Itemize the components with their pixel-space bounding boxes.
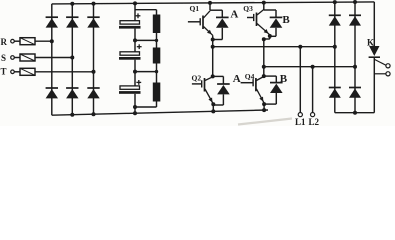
rectifier diode bottom leg 1 [46,88,58,98]
terminal T [1,66,21,76]
resistor R2 bleeder [153,48,161,64]
transistor Q1 [188,11,213,36]
node DC+ cap string [133,1,137,5]
resistor R1 bleeder [153,15,161,34]
contact blade K [375,60,387,66]
contact terminal upper [386,64,390,68]
node Q3 collector rail [262,1,266,5]
node clamp leg2 top [353,0,357,4]
node L2 tap on phase B [311,65,315,69]
label K [367,37,374,47]
scan smudge artifact [238,119,292,125]
svg-text:B: B [280,73,288,85]
node T-leg junction [92,70,96,74]
svg-text:Q2: Q2 [192,73,202,82]
wire clamp bridge bottom rail [335,112,375,114]
wire Q3 emitter jog [262,36,270,41]
node clamp leg1 top [333,0,337,4]
wire Q2 emitter to rail [211,104,215,113]
node Q4 collector [262,74,266,78]
wire clamp bridge leg 1 [334,2,336,113]
wire phase A line [213,46,335,48]
node phase A clamp junction [333,45,337,49]
rectifier diode bottom leg 3 [87,88,99,98]
fuse R [20,38,35,45]
svg-text:R: R [1,37,8,47]
capacitor C2 [119,44,142,59]
node phase B [262,65,266,69]
node Q1 collector rail [208,1,212,5]
wire R to bridge [35,40,52,42]
transistor Q4 [241,77,265,104]
wire Q1 emitter node [211,35,215,76]
svg-text:Q3: Q3 [243,4,253,13]
transistor Q2 [192,77,213,104]
label A upper [230,9,238,21]
wire rectifier leg 2 [71,4,73,115]
svg-text:B: B [282,14,290,26]
rectifier diode top leg 1 [46,17,58,27]
diode D3 freewheel [270,10,283,36]
wire rectifier leg 1 [51,4,53,115]
transistor Q4 label [245,72,255,81]
wire link to resistor chain top [135,10,157,15]
terminal L1 [295,113,306,127]
terminal S [1,53,20,63]
node S-leg junction [70,56,74,60]
svg-text:A: A [230,9,238,21]
fuse T [20,68,35,75]
wire rectifier leg 3 [93,4,95,115]
node leg3 bottom rail [92,112,96,116]
resistor R3 bleeder [153,83,161,102]
node clamp bottom leg2 [353,111,357,115]
wire L1 drop [299,47,301,113]
rectifier diode top leg 2 [66,17,78,27]
svg-text:L2: L2 [309,117,320,126]
svg-text:S: S [1,53,6,63]
wire cap junction1 link [135,39,157,41]
node phase B clamp junction [353,65,357,69]
label A lower [233,73,241,85]
wire S to bridge [35,57,72,59]
wire Q2 diode link [213,76,224,84]
wire Q1 collector drop [210,3,222,10]
rectifier diode top leg 3 [87,17,99,27]
wire K branch drop [373,2,375,46]
transistor Q2 label [192,73,202,82]
wire clamp bridge leg 2 [354,2,356,113]
node leg2 bottom rail [70,113,74,117]
fuse S [20,54,35,61]
diode D4 freewheel [264,83,283,105]
node Q4 emitter [262,102,266,106]
wire phase B line [264,66,355,68]
wire Q4 emitter to rail [262,104,266,112]
contact terminal lower [386,72,390,76]
svg-text:Q1: Q1 [190,4,200,13]
wire R1-R2 junction [155,33,158,48]
clamp diode bottom leg 2 [349,88,361,98]
node R-leg junction [50,39,54,43]
terminal R [1,37,21,47]
diode D2 freewheel [213,84,229,105]
wire cap junction2 link [135,71,157,73]
transistor Q3 [247,10,270,35]
svg-text:L1: L1 [295,117,306,126]
transistor Q3 label [243,4,253,13]
node phase A [211,45,215,49]
wire cap1-cap2 junction [133,29,137,52]
wire R2-R3 junction [155,64,158,83]
diode D1 freewheel [213,10,229,39]
label B lower [280,73,288,85]
node Q3 emitter junction [268,34,272,38]
node L1 tap on phase A [298,45,302,49]
wire Q4 diode link [264,76,277,83]
rectifier diode bottom leg 2 [66,88,78,98]
node Q2 emitter [211,102,215,106]
wire Q3 emitter node [263,39,265,76]
wire top DC+ rail [52,2,375,4]
wire L2 drop [312,67,314,113]
transistor Q1 label [190,4,200,13]
svg-text:T: T [1,66,7,76]
wire contact lower stub [374,73,386,75]
wire cap string top drop [134,3,136,21]
wire cap3 bottom to rail [133,94,137,115]
node leg3 top rail [92,2,96,6]
node leg2 top rail [70,2,74,6]
wire cap2-cap3 junction [133,60,137,86]
clamp diode top leg 1 [329,15,341,25]
capacitor C1 [119,13,141,28]
clamp diode top leg 2 [349,15,361,25]
label B upper [282,14,290,26]
wire cap bottom link to resistor chain [135,102,157,108]
svg-text:K: K [367,37,374,47]
svg-text:A: A [233,73,241,85]
node Q2 collector [211,74,215,78]
thyristor K [369,46,380,113]
wire Q3 collector drop [264,3,276,10]
terminal L2 [309,113,320,127]
capacitor C3 [119,80,141,94]
clamp diode bottom leg 1 [329,88,341,98]
wire bottom DC- rail [52,110,268,115]
wire T to bridge [35,71,94,73]
